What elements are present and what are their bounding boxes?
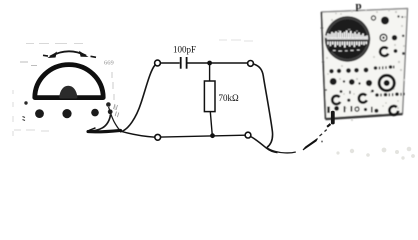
cable from upper post bbox=[109, 107, 120, 130]
scope left edge tick bbox=[328, 48, 332, 52]
wire: resistor to bottom junction bbox=[210, 112, 212, 136]
scope speck bbox=[402, 52, 405, 55]
meter knob 2 bbox=[62, 109, 71, 118]
oscilloscope panel bbox=[321, 0, 408, 121]
meter knob 1 bbox=[35, 109, 44, 118]
scope dot row c bbox=[346, 68, 351, 73]
meter knob 3 bbox=[91, 109, 99, 117]
scope bottom ring dot bbox=[355, 107, 359, 111]
scope knob row2 b bbox=[349, 79, 355, 85]
scope CRT screen bbox=[325, 16, 370, 61]
scope speck bbox=[402, 35, 405, 38]
scope marks right of row1 bbox=[374, 66, 378, 70]
junction node top bbox=[207, 61, 212, 66]
cable from lower post bbox=[90, 114, 111, 131]
wire: bottom rail bbox=[161, 135, 246, 137]
scope bottom dot b bbox=[364, 108, 367, 111]
scope bottom tick c bbox=[371, 107, 373, 113]
svg-text:669: 669 bbox=[104, 60, 114, 67]
scope row3 dot2 bbox=[371, 90, 374, 93]
scope input connector bbox=[331, 111, 335, 125]
scope probe dashes bbox=[320, 130, 327, 136]
meter pointer hump bbox=[60, 87, 76, 97]
svg-text:70kΩ: 70kΩ bbox=[219, 93, 240, 103]
svg-text:p: p bbox=[356, 0, 362, 12]
node: bottom-right terminal bbox=[245, 132, 251, 138]
scope dot row a bbox=[329, 69, 333, 73]
cable swoosh bbox=[88, 130, 121, 131]
scope panel noise speckles bbox=[325, 10, 406, 122]
scope small knob bbox=[394, 49, 398, 53]
scope tick right bbox=[397, 15, 399, 17]
scope knob row3 c bbox=[375, 93, 379, 97]
scope row3 dot bbox=[347, 99, 350, 102]
meter small dot upper-left bbox=[24, 101, 27, 104]
wire: bottom-right node to scope lead bbox=[251, 137, 278, 153]
scope bottom tick b bbox=[350, 106, 352, 112]
svg-text:100pF: 100pF bbox=[173, 44, 196, 54]
signal generator faint body hints bbox=[13, 44, 115, 137]
faint bottom-right smudges bbox=[336, 147, 415, 160]
scope small ring knob bbox=[371, 16, 375, 20]
scope bottom connector post bbox=[334, 106, 339, 111]
wire: bottom rail left stub bbox=[120, 131, 155, 137]
wire: junction down to resistor bbox=[209, 63, 211, 81]
capacitor C1 100pF bbox=[181, 57, 187, 69]
scope ring knob with dot bbox=[380, 34, 387, 41]
meter tuning arc with arrowheads bbox=[43, 51, 96, 57]
scope bottom tick a bbox=[344, 106, 346, 112]
node: top-right terminal bbox=[248, 61, 254, 67]
CRT waveform trace bbox=[326, 30, 368, 52]
scope C-knob row3 a bbox=[332, 96, 340, 104]
meter window dome bbox=[35, 65, 103, 98]
wire: top-left node to capacitor bbox=[160, 62, 179, 64]
scope probe stroke bbox=[303, 139, 318, 151]
resistor R1 70k bbox=[204, 81, 215, 112]
node: top-left terminal bbox=[155, 60, 161, 66]
wire: cable to top-left node bbox=[120, 65, 155, 132]
scope knob row2 c bbox=[366, 80, 372, 86]
faint script near cable bbox=[114, 104, 119, 117]
scope dot row e bbox=[364, 68, 369, 73]
wire: top-right node to scope lead bbox=[253, 64, 272, 148]
scope big ringed knob bbox=[379, 75, 394, 90]
scope bottom dot c bbox=[374, 109, 378, 113]
scope dot row d bbox=[354, 68, 359, 73]
junction node bottom bbox=[210, 133, 215, 138]
scope bottom big C knob bbox=[389, 106, 398, 115]
scope dot row b bbox=[337, 69, 341, 73]
meter tick lower-left bbox=[23, 117, 26, 121]
scope knob top-right bbox=[381, 17, 389, 25]
scope knob bbox=[392, 35, 397, 40]
scope bottom switch a bbox=[327, 107, 329, 114]
node: bottom-left terminal bbox=[155, 134, 161, 140]
scope knob C-shape bbox=[380, 47, 388, 56]
scope C-knob row3 b bbox=[359, 94, 367, 102]
meter output connector posts bbox=[106, 102, 111, 107]
scope knob row2 a bbox=[330, 78, 337, 85]
scope row2 tiny dots bbox=[343, 80, 345, 82]
scope row y92 marks bbox=[340, 90, 343, 93]
wire: lead tail bbox=[267, 148, 296, 153]
wire: capacitor to top-right node bbox=[187, 62, 248, 64]
